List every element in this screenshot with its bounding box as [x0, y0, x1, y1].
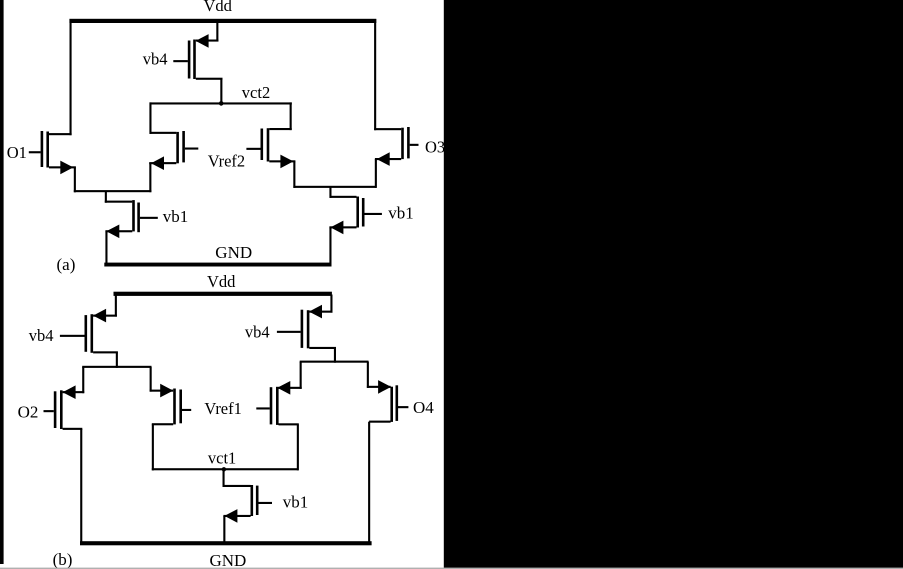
- svg-text:Vref1: Vref1: [204, 399, 242, 418]
- wire M2 source down: [149, 163, 151, 192]
- wire tail junction right (a): [293, 186, 376, 188]
- wire M14 source to GND: [223, 516, 225, 542]
- transistor M5 vb4 (a): [173, 34, 222, 80]
- svg-text:vct2: vct2: [242, 83, 270, 102]
- wire M4 source down: [375, 159, 377, 188]
- label O2: [18, 403, 39, 422]
- label O4: [413, 398, 434, 417]
- label (a): [57, 255, 76, 274]
- node vct1: [222, 467, 226, 471]
- label vb1 right (a): [388, 203, 414, 222]
- label vb1 (b): [283, 492, 309, 511]
- label vb4 right (b): [245, 322, 270, 341]
- wire M1 source down: [74, 167, 76, 192]
- label Vref2: [208, 152, 246, 171]
- transistor M14 vb1 (b): [223, 485, 272, 523]
- svg-text:Vdd: Vdd: [207, 272, 236, 291]
- svg-text:Vdd: Vdd: [204, 0, 233, 15]
- svg-text:O1: O1: [7, 143, 27, 162]
- node vct2: [219, 101, 224, 106]
- svg-text:O3: O3: [425, 137, 445, 156]
- transistor M7 vb1-right (a): [329, 196, 382, 234]
- label Vdd (b): [207, 272, 236, 291]
- wire M3 source down: [293, 161, 295, 188]
- wire M13 drain down to GND: [368, 422, 370, 542]
- transistor M1 O1 (a): [29, 131, 76, 174]
- transistor M6 vb1-left (a): [105, 200, 158, 238]
- svg-text:vb1: vb1: [388, 203, 414, 222]
- wire M9 source to Vdd rail: [330, 295, 332, 313]
- wire M12 drain down to vct1: [297, 424, 299, 470]
- svg-text:GND: GND: [210, 551, 247, 569]
- wire M5 drain to vct2 node: [220, 79, 222, 105]
- svg-text:(a): (a): [57, 255, 76, 274]
- Vdd rail (b): [114, 292, 332, 296]
- wire connector left (b): [82, 366, 151, 368]
- label GND (a): [215, 243, 252, 262]
- wire connector right (b): [300, 361, 369, 363]
- svg-text:vb4: vb4: [29, 326, 54, 345]
- GND rail (b): [80, 541, 372, 545]
- black margin right: [444, 0, 903, 569]
- transistor M3 Vref2-right (a): [246, 128, 295, 168]
- transistor M9 vb4-right (b): [277, 305, 336, 349]
- wire M11 source up to connector: [150, 367, 152, 392]
- transistor M10 O2 (b): [44, 385, 85, 430]
- gray bottom edge: [0, 568, 903, 569]
- label Vdd (a): [204, 0, 233, 15]
- wire M12 source up to connector: [300, 362, 302, 389]
- label vb4 left (b): [29, 326, 54, 345]
- label GND (b): [210, 551, 247, 569]
- svg-text:O4: O4: [413, 398, 434, 417]
- wire M11 drain down to vct1: [152, 424, 154, 470]
- wire M8 source to Vdd rail: [115, 295, 117, 317]
- svg-text:vct1: vct1: [208, 448, 236, 467]
- label (b): [53, 550, 73, 569]
- svg-text:(b): (b): [53, 550, 73, 569]
- svg-text:vb1: vb1: [283, 492, 309, 511]
- wire M2 drain up to vct2: [149, 102, 151, 133]
- wire vct1 node down to M14: [223, 469, 225, 487]
- wire junction stub down right (a): [329, 187, 331, 198]
- wire vct1 horizontal: [152, 468, 298, 470]
- svg-text:Vref2: Vref2: [208, 152, 246, 171]
- transistor M2 Vref2-left (a): [149, 131, 198, 170]
- label vct2: [242, 83, 270, 102]
- wire tail junction left (a): [74, 190, 152, 192]
- svg-text:O2: O2: [18, 403, 39, 422]
- svg-text:vb1: vb1: [163, 207, 189, 226]
- wire M10 drain down to GND: [80, 429, 82, 542]
- wire M13 source up to connector: [367, 362, 369, 388]
- wire Vdd rail to O1 drain: [70, 19, 72, 135]
- wire M8 drain down: [116, 352, 118, 368]
- svg-text:vb4: vb4: [143, 49, 168, 68]
- transistor M13 O4 (b): [367, 380, 409, 423]
- wire M6 source to GND: [105, 231, 107, 263]
- transistor M4 O3 (a): [374, 127, 418, 166]
- black margin left: [0, 0, 4, 564]
- label vb4 (a): [143, 49, 168, 68]
- wire M3 drain up to vct2: [290, 102, 292, 130]
- label vb1 left (a): [163, 207, 189, 226]
- label vct1: [208, 448, 236, 467]
- wire vct2 horizontal: [150, 102, 292, 104]
- transistor M8 vb4-left (b): [60, 309, 118, 354]
- Vdd rail (a): [69, 19, 376, 23]
- wire M9 drain down: [334, 348, 336, 363]
- wire M4 drain to Vdd rail: [374, 19, 376, 130]
- wire M5 source to Vdd rail: [216, 20, 218, 42]
- svg-text:GND: GND: [215, 243, 252, 262]
- wire M10 source up to connector: [82, 367, 84, 393]
- label O1: [7, 143, 27, 162]
- transistor M12 Vref1-right (b): [256, 381, 301, 425]
- svg-text:vb4: vb4: [245, 322, 270, 341]
- wire junction stub down left (a): [105, 191, 107, 203]
- label Vref1: [204, 399, 242, 418]
- transistor M11 Vref1-left (b): [150, 384, 192, 426]
- label O3: [425, 137, 445, 156]
- GND rail (a): [104, 263, 331, 267]
- wire M7 source to GND: [329, 227, 331, 263]
